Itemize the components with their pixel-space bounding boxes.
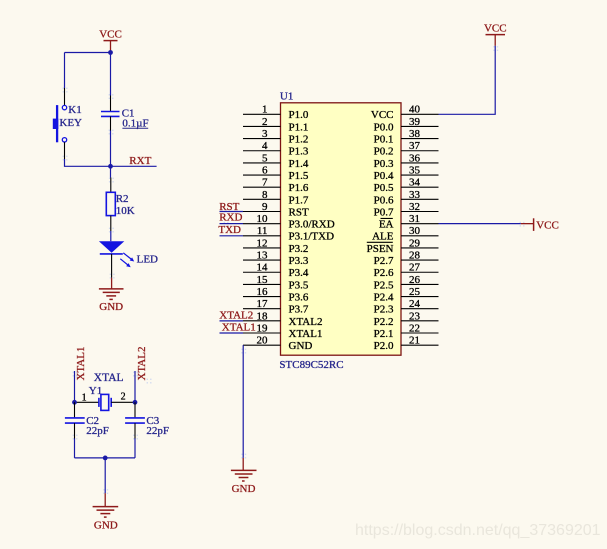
U1 pin 1 (P1.0)	[243, 104, 309, 122]
U1 pin 14 (P3.4)	[243, 262, 309, 280]
wire R2 to LED	[110, 231, 112, 241]
svg-text:P1.1: P1.1	[289, 121, 309, 133]
wire bottom rail	[75, 457, 136, 459]
svg-text:14: 14	[257, 262, 269, 274]
svg-text:P3.1/TXD: P3.1/TXD	[289, 231, 335, 243]
svg-text:39: 39	[409, 116, 421, 128]
wire VCC to U1 pin 40	[439, 46, 496, 115]
svg-text:15: 15	[257, 274, 269, 286]
ground GND (crystal branch)	[93, 493, 119, 531]
svg-text:K1: K1	[68, 104, 81, 116]
svg-text:23: 23	[409, 310, 421, 322]
svg-text:ALE: ALE	[372, 231, 394, 243]
U1 pin 35 (P0.4)	[374, 164, 439, 182]
svg-text:STC89C52RC: STC89C52RC	[279, 359, 343, 371]
wire U1 pin 31 to VCC	[439, 223, 521, 225]
capacitor C2 22pF	[65, 402, 109, 438]
svg-text:33: 33	[409, 189, 421, 201]
svg-text:LED: LED	[137, 253, 158, 265]
U1 pin 30 (ALE)	[372, 225, 438, 243]
svg-text:VCC: VCC	[484, 23, 507, 35]
junction RXT node	[108, 164, 113, 169]
U1 pin 28 (P2.7)	[374, 250, 439, 268]
wire net RST stub (pin 9)	[220, 211, 244, 213]
wire rail to GND	[104, 458, 106, 493]
svg-text:P1.7: P1.7	[289, 194, 309, 206]
svg-text:XTAL2: XTAL2	[136, 347, 148, 381]
junction XTAL1 node	[72, 400, 77, 405]
svg-text:8: 8	[262, 189, 268, 201]
svg-text:GND: GND	[94, 520, 118, 532]
wire net XTAL1 stub (pin 19)	[220, 332, 244, 334]
svg-text:27: 27	[409, 262, 421, 274]
svg-text:21: 21	[409, 335, 420, 347]
svg-text:32: 32	[409, 201, 420, 213]
svg-text:P3.7: P3.7	[289, 304, 309, 316]
power VCC (right, pin 31)	[521, 218, 559, 231]
wire XTAL1 to crystal	[74, 371, 76, 402]
svg-text:P3.6: P3.6	[289, 291, 309, 303]
svg-text:3: 3	[262, 128, 268, 140]
svg-text:TXD: TXD	[218, 224, 241, 236]
svg-text:36: 36	[409, 152, 421, 164]
svg-text:EA: EA	[379, 219, 394, 231]
LED	[99, 241, 158, 267]
svg-text:37: 37	[409, 140, 421, 152]
ground GND (LED branch)	[99, 278, 124, 313]
U1 pin 39 (P0.0)	[374, 116, 439, 134]
U1 pin 22 (P2.1)	[374, 322, 439, 340]
IC U1 body	[281, 103, 402, 355]
svg-text:P2.3: P2.3	[374, 304, 394, 316]
svg-text:18: 18	[257, 310, 269, 322]
svg-text:11: 11	[257, 225, 268, 237]
svg-text:P0.6: P0.6	[374, 194, 394, 206]
svg-text:P2.2: P2.2	[374, 316, 394, 328]
svg-text:26: 26	[409, 274, 421, 286]
svg-text:U1: U1	[280, 91, 293, 103]
U1 pin 15 (P3.5)	[243, 274, 309, 292]
U1 pin 4 (P1.3)	[243, 140, 309, 158]
wire XTAL2 to crystal	[134, 371, 136, 402]
svg-text:P0.5: P0.5	[374, 182, 394, 194]
svg-text:28: 28	[409, 250, 421, 262]
svg-text:XTAL2: XTAL2	[219, 309, 253, 321]
U1 pin 31 (EA)	[379, 213, 439, 231]
U1 pin 21 (P2.0)	[374, 335, 439, 353]
svg-text:35: 35	[409, 164, 421, 176]
svg-text:P2.6: P2.6	[374, 267, 394, 279]
wire K1 to RXT node	[65, 159, 111, 166]
svg-text:P0.3: P0.3	[374, 158, 394, 170]
junction VCC node	[108, 50, 113, 55]
svg-text:PSEN: PSEN	[367, 243, 394, 255]
svg-text:P3.0/RXD: P3.0/RXD	[289, 219, 335, 231]
U1 pin 29 (PSEN)	[367, 237, 439, 255]
grid hotspot dots (decorative-free markers at pin ends)	[63, 46, 525, 494]
svg-text:2: 2	[121, 392, 126, 403]
svg-text:4: 4	[262, 140, 268, 152]
svg-text:38: 38	[409, 128, 421, 140]
svg-text:34: 34	[409, 177, 421, 189]
svg-text:RXT: RXT	[129, 155, 151, 167]
svg-text:VCC: VCC	[99, 28, 122, 40]
svg-text:1: 1	[262, 104, 268, 116]
U1 pin 25 (P2.4)	[374, 286, 439, 304]
U1 pin 17 (P3.7)	[243, 298, 309, 316]
svg-text:XTAL1: XTAL1	[75, 347, 87, 381]
wire net RXD stub (pin 10)	[220, 223, 244, 225]
svg-text:6: 6	[262, 164, 268, 176]
U1 pin 33 (P0.6)	[374, 189, 439, 207]
svg-text:16: 16	[257, 286, 269, 298]
svg-text:GND: GND	[289, 340, 313, 352]
U1 pin 37 (P0.2)	[374, 140, 439, 158]
resistor R2 10K	[106, 178, 134, 232]
svg-text:24: 24	[409, 298, 421, 310]
svg-text:P0.7: P0.7	[374, 206, 394, 218]
switch K1 KEY	[53, 88, 82, 159]
U1 pin 3 (P1.2)	[243, 128, 308, 146]
svg-text:XTAL2: XTAL2	[289, 316, 323, 328]
U1 pin 12 (P3.2)	[243, 237, 308, 255]
svg-text:P1.2: P1.2	[289, 134, 309, 146]
capacitor C3 22pF	[125, 402, 169, 438]
power VCC (top left)	[99, 28, 122, 52]
svg-text:29: 29	[409, 237, 421, 249]
power VCC (top right)	[484, 23, 507, 46]
U1 pin 6 (P1.5)	[243, 164, 309, 182]
crystal Y1	[75, 385, 136, 410]
svg-text:P2.5: P2.5	[374, 279, 394, 291]
svg-text:22pF: 22pF	[86, 425, 109, 437]
U1 pin 2 (P1.1)	[243, 116, 308, 134]
svg-text:17: 17	[257, 298, 269, 310]
svg-text:25: 25	[409, 286, 421, 298]
U1 pin 10 (P3.0/RXD)	[243, 213, 335, 231]
svg-text:31: 31	[409, 213, 420, 225]
U1 pin 5 (P1.4)	[243, 152, 309, 170]
svg-text:XTAL1: XTAL1	[222, 321, 256, 333]
svg-text:P1.3: P1.3	[289, 146, 309, 158]
svg-text:R2: R2	[116, 193, 129, 205]
U1 pin 11 (P3.1/TXD)	[243, 225, 334, 243]
U1 pin 26 (P2.5)	[374, 274, 439, 292]
svg-text:30: 30	[409, 225, 421, 237]
svg-text:P3.4: P3.4	[289, 267, 309, 279]
wire RXT node to R2	[110, 166, 112, 177]
svg-text:10: 10	[257, 213, 269, 225]
svg-text:P2.0: P2.0	[374, 340, 394, 352]
wire RXT stub	[111, 165, 157, 167]
wire LED to GND	[111, 254, 113, 278]
wire C3 down	[134, 439, 136, 458]
svg-text:VCC: VCC	[536, 219, 559, 231]
svg-text:GND: GND	[232, 483, 256, 495]
U1 pin 7 (P1.6)	[243, 177, 309, 195]
U1 pin 13 (P3.3)	[243, 250, 309, 268]
svg-text:7: 7	[262, 177, 268, 189]
svg-text:P1.4: P1.4	[289, 158, 309, 170]
junction XTAL2 node	[133, 400, 138, 405]
U1 pin 32 (P0.7)	[374, 201, 439, 219]
svg-text:RST: RST	[289, 206, 309, 218]
ground GND (U1 pin 20)	[231, 458, 257, 495]
U1 pin 16 (P3.6)	[243, 286, 309, 304]
capacitor C1	[101, 96, 149, 131]
svg-text:0.1µF: 0.1µF	[122, 117, 148, 129]
U1 pin 27 (P2.6)	[374, 262, 439, 280]
svg-text:22: 22	[409, 322, 420, 334]
U1 pin 24 (P2.3)	[374, 298, 439, 316]
svg-text:20: 20	[257, 335, 269, 347]
svg-text:2: 2	[262, 116, 268, 128]
svg-text:10K: 10K	[116, 205, 135, 217]
wire VCC down to C1	[110, 53, 112, 96]
svg-text:P2.4: P2.4	[374, 291, 394, 303]
svg-text:KEY: KEY	[59, 117, 82, 129]
svg-text:1: 1	[82, 392, 87, 403]
svg-text:P1.0: P1.0	[289, 109, 309, 121]
U1 pin 20 (GND)	[243, 335, 312, 353]
svg-text:P1.6: P1.6	[289, 182, 309, 194]
svg-text:RXD: RXD	[219, 212, 242, 224]
U1 pin 18 (XTAL2)	[243, 310, 322, 328]
U1 pin 8 (P1.7)	[243, 189, 309, 207]
svg-text:P3.5: P3.5	[289, 279, 309, 291]
junction bottom rail	[103, 456, 108, 461]
svg-text:P0.2: P0.2	[374, 146, 394, 158]
svg-text:12: 12	[257, 237, 268, 249]
wire U1 pin 20 to GND	[242, 345, 244, 458]
svg-text:VCC: VCC	[371, 109, 394, 121]
svg-text:9: 9	[262, 201, 268, 213]
svg-text:P3.2: P3.2	[289, 243, 309, 255]
wire down to K1	[64, 53, 66, 89]
U1 pin 23 (P2.2)	[374, 310, 439, 328]
svg-text:P0.0: P0.0	[374, 121, 394, 133]
svg-text:P0.4: P0.4	[374, 170, 394, 182]
svg-text:GND: GND	[99, 301, 123, 313]
svg-text:5: 5	[262, 152, 268, 164]
svg-text:P2.1: P2.1	[374, 328, 394, 340]
svg-text:P3.3: P3.3	[289, 255, 309, 267]
wire net TXD stub (pin 11)	[220, 235, 244, 237]
wire net XTAL2 stub (pin 18)	[220, 320, 244, 322]
svg-text:XTAL: XTAL	[94, 372, 124, 384]
svg-text:19: 19	[257, 322, 269, 334]
U1 pin 19 (XTAL1)	[243, 322, 322, 340]
svg-text:XTAL1: XTAL1	[289, 328, 323, 340]
svg-text:P1.5: P1.5	[289, 170, 309, 182]
svg-text:https://blog.csdn.net/qq_37369: https://blog.csdn.net/qq_37369201	[355, 522, 601, 539]
svg-text:40: 40	[409, 104, 421, 116]
U1 pin 36 (P0.3)	[374, 152, 439, 170]
wire VCC rail to K1 branch	[65, 52, 111, 54]
wire C1 to RXT node	[110, 131, 112, 167]
svg-text:P0.1: P0.1	[374, 134, 394, 146]
wire C2 down	[74, 439, 76, 458]
U1 pin 34 (P0.5)	[374, 177, 439, 195]
U1 pin 9 (RST)	[243, 201, 309, 219]
svg-text:P2.7: P2.7	[374, 255, 394, 267]
U1 pin 40 (VCC)	[371, 104, 439, 122]
U1 pin 38 (P0.1)	[374, 128, 439, 146]
svg-text:22pF: 22pF	[146, 425, 169, 437]
svg-text:13: 13	[257, 250, 269, 262]
